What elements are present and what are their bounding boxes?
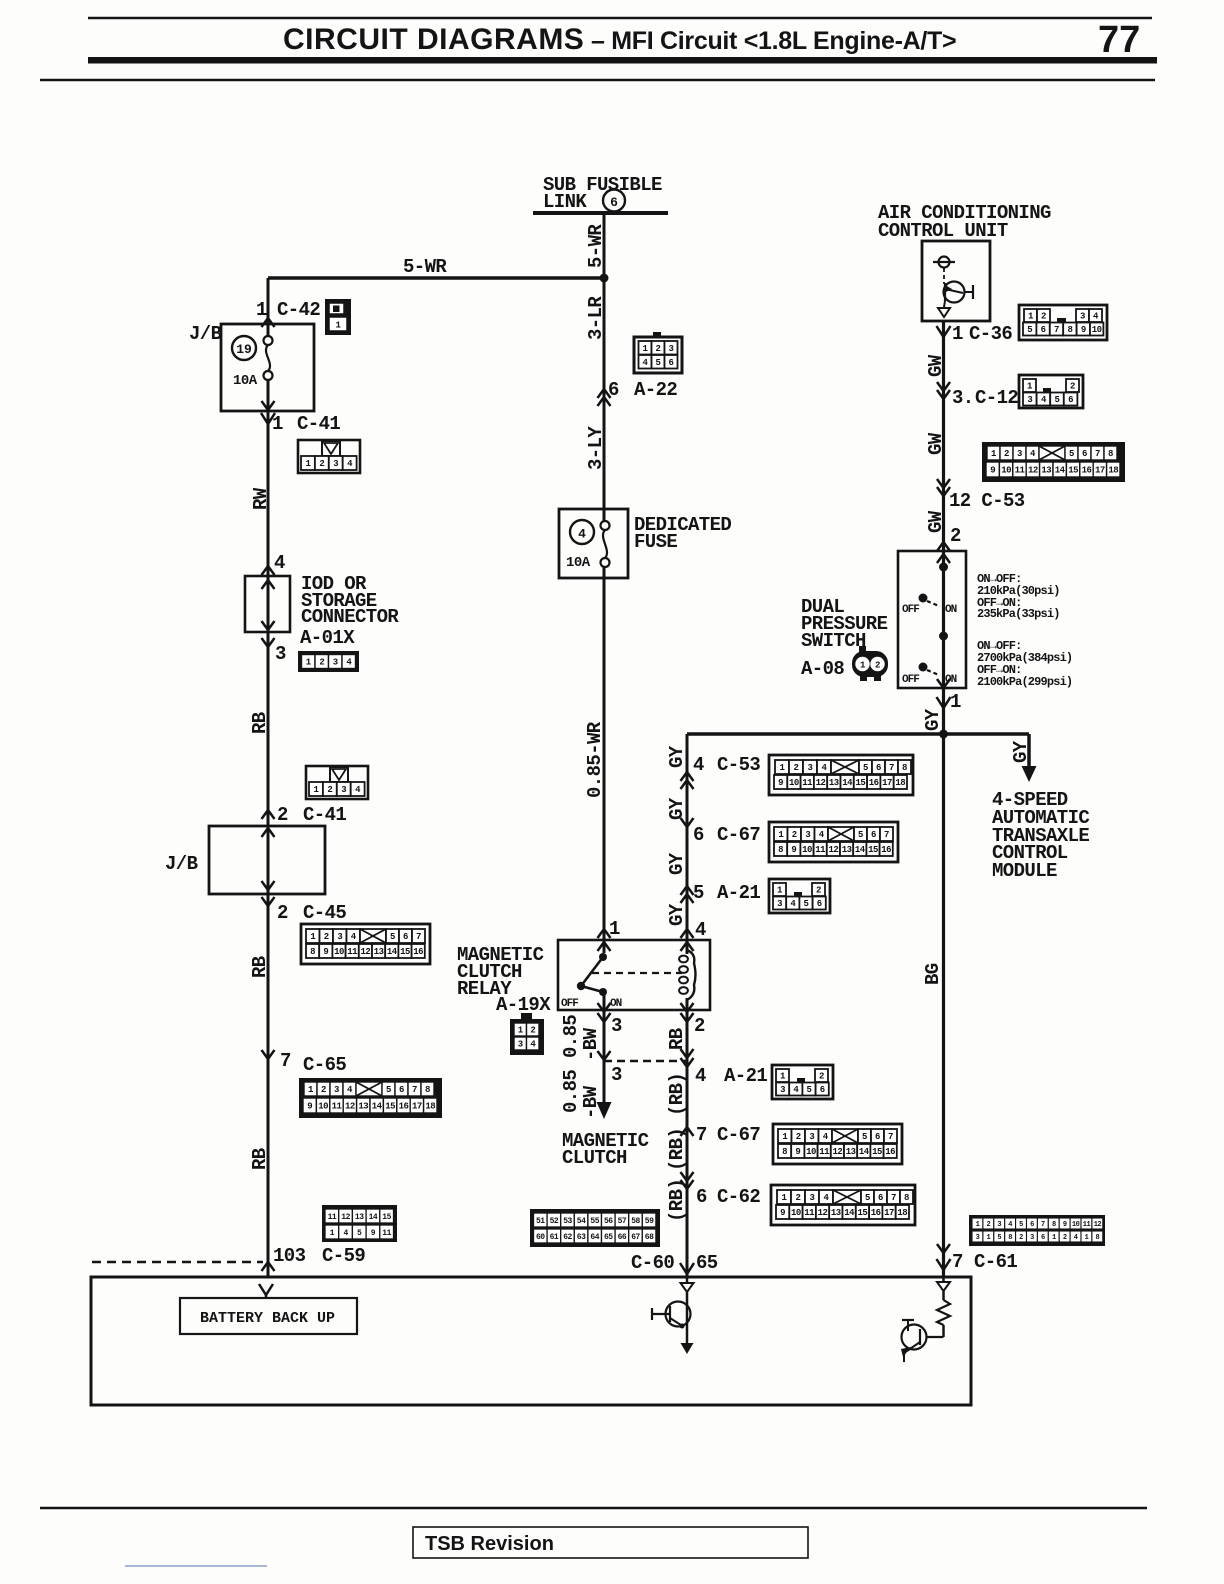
svg-text:C-45: C-45 [303, 902, 346, 924]
svg-text:8: 8 [904, 1193, 909, 1203]
svg-text:3: 3 [997, 1221, 1001, 1229]
svg-text:14: 14 [372, 1102, 383, 1112]
svg-text:14: 14 [1055, 466, 1066, 476]
svg-text:8: 8 [1067, 325, 1072, 335]
svg-text:8: 8 [778, 845, 783, 855]
svg-text:12: 12 [341, 1213, 350, 1222]
svg-text:51: 51 [536, 1217, 545, 1226]
svg-text:CONTROL UNIT: CONTROL UNIT [878, 220, 1008, 242]
svg-text:2: 2 [324, 932, 329, 942]
svg-text:7: 7 [891, 1193, 896, 1203]
svg-text:1: 1 [987, 1234, 991, 1242]
svg-text:4: 4 [1008, 1221, 1012, 1229]
svg-text:GY: GY [922, 708, 944, 731]
svg-text:13: 13 [831, 1208, 841, 1218]
svg-text:7: 7 [888, 1132, 893, 1142]
svg-text:66: 66 [618, 1233, 627, 1242]
svg-text:7: 7 [416, 932, 421, 942]
svg-text:3: 3 [1017, 449, 1022, 459]
svg-text:3-LY: 3-LY [585, 426, 607, 470]
svg-text:5: 5 [807, 1085, 812, 1095]
svg-text:17: 17 [412, 1102, 422, 1112]
svg-text:10A: 10A [566, 555, 591, 571]
svg-text:62: 62 [563, 1233, 572, 1242]
svg-text:9: 9 [780, 1208, 785, 1218]
svg-text:15: 15 [857, 1208, 867, 1218]
svg-text:9: 9 [307, 1102, 312, 1112]
svg-text:13: 13 [846, 1147, 856, 1157]
svg-text:14: 14 [387, 947, 398, 957]
svg-text:OFF: OFF [902, 674, 919, 686]
svg-text:5-WR: 5-WR [403, 256, 447, 278]
svg-text:RB: RB [249, 1148, 271, 1170]
svg-text:11: 11 [382, 1229, 391, 1238]
svg-text:2: 2 [656, 344, 661, 354]
svg-text:53: 53 [563, 1217, 572, 1226]
svg-text:9: 9 [795, 1147, 800, 1157]
svg-text:2: 2 [321, 1085, 326, 1095]
svg-text:6: 6 [1041, 325, 1046, 335]
svg-text:A-21: A-21 [717, 882, 760, 904]
svg-text:ON: ON [610, 998, 622, 1010]
svg-text:16: 16 [413, 947, 423, 957]
svg-text:14: 14 [844, 1208, 855, 1218]
svg-text:CONNECTOR: CONNECTOR [301, 606, 399, 628]
svg-text:11: 11 [328, 1213, 337, 1222]
svg-text:15: 15 [385, 1102, 395, 1112]
svg-text:GW: GW [925, 510, 947, 533]
svg-text:RB: RB [666, 1028, 688, 1050]
svg-text:6: 6 [871, 830, 876, 840]
svg-text:15: 15 [872, 1147, 882, 1157]
svg-text:(RB): (RB) [666, 1073, 688, 1116]
svg-text:17: 17 [1095, 466, 1105, 476]
svg-text:12: 12 [832, 1147, 842, 1157]
svg-text:16: 16 [871, 1208, 881, 1218]
svg-text:C-61: C-61 [974, 1251, 1017, 1273]
svg-text:61: 61 [550, 1233, 559, 1242]
svg-text:5: 5 [1055, 395, 1060, 405]
svg-text:CLUTCH: CLUTCH [562, 1147, 627, 1169]
svg-text:6: 6 [403, 932, 408, 942]
svg-text:CIRCUIT DIAGRAMS – MFI Circuit: CIRCUIT DIAGRAMS – MFI Circuit <1.8L Eng… [283, 23, 956, 56]
svg-text:5: 5 [390, 932, 395, 942]
svg-text:3: 3 [1027, 395, 1032, 405]
svg-text:1: 1 [1052, 1234, 1056, 1242]
svg-text:11: 11 [815, 845, 826, 855]
svg-text:1: 1 [272, 413, 283, 435]
svg-text:GW: GW [925, 432, 947, 455]
svg-text:12: 12 [360, 947, 370, 957]
svg-text:18: 18 [897, 1208, 907, 1218]
svg-text:15: 15 [400, 947, 410, 957]
svg-text:3: 3 [780, 1085, 785, 1095]
svg-text:2: 2 [819, 1072, 824, 1082]
svg-text:55: 55 [590, 1217, 599, 1226]
svg-text:9: 9 [990, 466, 995, 476]
svg-text:6: 6 [610, 195, 618, 210]
svg-text:C-59: C-59 [322, 1245, 365, 1267]
svg-text:5: 5 [862, 1132, 867, 1142]
svg-text:10: 10 [1092, 325, 1102, 335]
svg-text:12: 12 [818, 1208, 828, 1218]
svg-text:2: 2 [277, 804, 288, 826]
svg-text:1: 1 [952, 323, 963, 345]
svg-text:3-LR: 3-LR [585, 296, 607, 340]
svg-text:C-67: C-67 [717, 824, 760, 846]
svg-text:18: 18 [425, 1102, 435, 1112]
svg-text:ON: ON [945, 604, 957, 616]
svg-text:103: 103 [273, 1245, 306, 1267]
svg-text:2: 2 [277, 902, 288, 924]
svg-text:9: 9 [323, 947, 328, 957]
svg-text:3: 3 [777, 899, 782, 909]
svg-text:3: 3 [275, 643, 286, 665]
svg-text:-BW: -BW [580, 1085, 602, 1119]
svg-text:5: 5 [1069, 449, 1074, 459]
svg-text:6: 6 [399, 1085, 404, 1095]
svg-text:5: 5 [804, 899, 809, 909]
svg-text:6: 6 [876, 763, 881, 773]
svg-text:56: 56 [604, 1217, 613, 1226]
svg-text:8: 8 [782, 1147, 787, 1157]
svg-text:C-42: C-42 [277, 299, 320, 321]
svg-text:13: 13 [842, 845, 852, 855]
svg-text:3: 3 [669, 344, 674, 354]
svg-text:58: 58 [631, 1217, 640, 1226]
svg-text:C-36: C-36 [969, 323, 1012, 345]
svg-text:10: 10 [789, 778, 799, 788]
svg-text:2: 2 [694, 1015, 705, 1037]
svg-text:12: 12 [828, 845, 838, 855]
svg-text:7: 7 [889, 763, 894, 773]
svg-text:235kPa(33psi): 235kPa(33psi) [977, 607, 1060, 621]
svg-text:18: 18 [895, 778, 905, 788]
svg-text:5: 5 [386, 1085, 391, 1095]
svg-text:3: 3 [333, 658, 338, 668]
svg-text:2: 2 [327, 785, 332, 795]
svg-text:C-41: C-41 [297, 413, 340, 435]
svg-text:8: 8 [902, 763, 907, 773]
svg-text:GY: GY [666, 797, 688, 820]
svg-text:3: 3 [810, 1193, 815, 1203]
svg-text:5: 5 [858, 830, 863, 840]
svg-text:3: 3 [808, 763, 813, 773]
svg-text:4: 4 [274, 552, 285, 574]
svg-text:GY: GY [666, 903, 688, 926]
svg-text:9: 9 [778, 778, 783, 788]
svg-text:10A: 10A [233, 373, 258, 389]
svg-text:4: 4 [695, 919, 706, 941]
svg-text:2: 2 [794, 763, 799, 773]
svg-text:65: 65 [604, 1233, 613, 1242]
svg-text:1: 1 [950, 691, 961, 713]
svg-text:16: 16 [885, 1147, 895, 1157]
svg-text:2: 2 [875, 661, 880, 671]
svg-text:2100kPa(299psi): 2100kPa(299psi) [977, 675, 1072, 689]
svg-text:8: 8 [310, 947, 315, 957]
svg-text:6: 6 [696, 1186, 707, 1208]
svg-text:MODULE: MODULE [992, 860, 1057, 882]
svg-text:4: 4 [578, 527, 586, 542]
svg-text:5: 5 [357, 1229, 362, 1238]
svg-text:7: 7 [952, 1251, 963, 1273]
svg-text:13: 13 [374, 947, 384, 957]
svg-text:RB: RB [249, 956, 271, 978]
svg-text:10: 10 [806, 1147, 816, 1157]
svg-text:15: 15 [868, 845, 878, 855]
svg-text:6: 6 [1068, 395, 1073, 405]
svg-text:4: 4 [695, 1065, 706, 1087]
svg-text:OFF: OFF [902, 604, 919, 616]
svg-text:65: 65 [696, 1252, 718, 1274]
svg-text:3: 3 [809, 1132, 814, 1142]
svg-text:10: 10 [802, 845, 812, 855]
svg-text:14: 14 [369, 1213, 378, 1222]
svg-text:68: 68 [645, 1233, 654, 1242]
svg-text:17: 17 [884, 1208, 894, 1218]
svg-text:4: 4 [693, 754, 704, 776]
svg-text:1: 1 [256, 299, 267, 321]
svg-text:16: 16 [869, 778, 879, 788]
svg-text:J/B: J/B [189, 323, 222, 345]
svg-text:5: 5 [1027, 325, 1032, 335]
svg-text:C-62: C-62 [717, 1186, 760, 1208]
svg-text:7: 7 [280, 1050, 291, 1072]
svg-text:57: 57 [618, 1217, 627, 1226]
svg-text:1: 1 [609, 918, 620, 940]
svg-text:1: 1 [976, 1221, 980, 1229]
svg-text:6: 6 [1082, 449, 1087, 459]
svg-text:77: 77 [1098, 19, 1140, 61]
svg-text:12: 12 [1028, 466, 1038, 476]
svg-text:15: 15 [855, 778, 865, 788]
svg-text:3: 3 [1030, 1234, 1034, 1242]
svg-text:7: 7 [884, 830, 889, 840]
svg-text:11: 11 [802, 778, 813, 788]
svg-text:2: 2 [1004, 449, 1009, 459]
svg-text:10: 10 [318, 1102, 328, 1112]
svg-text:A-01X: A-01X [300, 627, 355, 649]
svg-text:8: 8 [425, 1085, 430, 1095]
svg-text:7: 7 [1054, 325, 1059, 335]
svg-text:8: 8 [1108, 449, 1113, 459]
svg-text:12 C-53: 12 C-53 [949, 490, 1025, 512]
svg-text:6: 6 [875, 1132, 880, 1142]
svg-text:10: 10 [1072, 1221, 1080, 1229]
svg-text:17: 17 [882, 778, 892, 788]
svg-text:12: 12 [1094, 1221, 1102, 1229]
svg-text:GY: GY [666, 852, 688, 875]
svg-text:GY: GY [1010, 740, 1032, 763]
svg-text:5: 5 [693, 882, 704, 904]
svg-text:(RB): (RB) [666, 1128, 688, 1171]
svg-text:A-22: A-22 [634, 379, 677, 401]
svg-text:0.85-WR: 0.85-WR [584, 721, 606, 798]
svg-text:14: 14 [842, 778, 853, 788]
svg-text:1: 1 [330, 1229, 335, 1238]
svg-text:A-21: A-21 [724, 1065, 767, 1087]
svg-text:C-41: C-41 [303, 804, 346, 826]
svg-text:5: 5 [656, 358, 661, 368]
svg-text:64: 64 [590, 1233, 599, 1242]
svg-text:11: 11 [1015, 466, 1026, 476]
svg-text:GW: GW [925, 354, 947, 377]
svg-text:11: 11 [1083, 1221, 1091, 1229]
svg-text:3: 3 [976, 1234, 980, 1242]
svg-text:7: 7 [412, 1085, 417, 1095]
svg-text:11: 11 [332, 1102, 343, 1112]
svg-text:2: 2 [1041, 312, 1046, 322]
svg-text:14: 14 [855, 845, 866, 855]
svg-text:BATTERY BACK UP: BATTERY BACK UP [200, 1310, 335, 1327]
svg-text:13: 13 [1041, 466, 1051, 476]
svg-text:18: 18 [1108, 466, 1118, 476]
svg-text:4: 4 [1074, 1234, 1078, 1242]
svg-text:2: 2 [796, 1132, 801, 1142]
svg-text:9: 9 [1081, 325, 1086, 335]
svg-text:59: 59 [645, 1217, 654, 1226]
svg-text:3: 3 [333, 459, 338, 469]
svg-text:TSB Revision: TSB Revision [425, 1533, 554, 1555]
svg-text:2: 2 [987, 1221, 991, 1229]
svg-text:2: 2 [950, 525, 961, 547]
svg-text:3: 3 [611, 1015, 622, 1037]
svg-text:6: 6 [1041, 1234, 1045, 1242]
svg-text:GY: GY [666, 745, 688, 768]
svg-text:3: 3 [805, 830, 810, 840]
svg-text:3: 3 [1080, 312, 1085, 322]
svg-text:3: 3 [611, 1064, 622, 1086]
svg-text:(RB): (RB) [666, 1179, 688, 1222]
svg-text:5: 5 [1019, 1221, 1023, 1229]
svg-text:16: 16 [399, 1102, 409, 1112]
svg-text:C-65: C-65 [303, 1054, 346, 1076]
svg-text:16: 16 [1082, 466, 1092, 476]
svg-text:RB: RB [249, 712, 271, 734]
svg-text:3: 3 [337, 932, 342, 942]
svg-text:5-WR: 5-WR [585, 224, 607, 268]
svg-text:15: 15 [382, 1213, 391, 1222]
svg-text:6: 6 [608, 379, 619, 401]
svg-text:RW: RW [250, 487, 272, 510]
svg-text:6: 6 [820, 1085, 825, 1095]
svg-text:10: 10 [791, 1208, 801, 1218]
svg-text:10: 10 [334, 947, 344, 957]
svg-text:16: 16 [881, 845, 891, 855]
svg-text:2: 2 [530, 1026, 535, 1036]
svg-text:5: 5 [997, 1234, 1001, 1242]
svg-text:J/B: J/B [165, 853, 198, 875]
svg-text:2: 2 [816, 886, 821, 896]
svg-text:5: 5 [863, 763, 868, 773]
svg-text:67: 67 [631, 1233, 640, 1242]
svg-text:63: 63 [577, 1233, 586, 1242]
svg-text:13: 13 [355, 1213, 364, 1222]
svg-text:2: 2 [1070, 382, 1075, 392]
svg-text:3: 3 [518, 1040, 523, 1050]
svg-text:6: 6 [817, 899, 822, 909]
svg-text:11: 11 [804, 1208, 815, 1218]
svg-text:12: 12 [345, 1102, 355, 1112]
svg-text:14: 14 [859, 1147, 870, 1157]
svg-text:2: 2 [319, 459, 324, 469]
svg-text:60: 60 [536, 1233, 545, 1242]
svg-text:8: 8 [1052, 1221, 1056, 1229]
svg-text:2: 2 [319, 658, 324, 668]
svg-text:15: 15 [1068, 466, 1078, 476]
svg-text:3: 3 [334, 1085, 339, 1095]
svg-text:4: 4 [343, 1229, 348, 1238]
svg-text:8: 8 [1096, 1234, 1100, 1242]
svg-text:13: 13 [829, 778, 839, 788]
svg-text:3.: 3. [952, 387, 974, 409]
svg-text:10: 10 [1001, 466, 1011, 476]
svg-text:FUSE: FUSE [634, 531, 677, 553]
svg-text:2: 2 [1063, 1234, 1067, 1242]
svg-text:13: 13 [358, 1102, 368, 1112]
svg-text:54: 54 [577, 1217, 586, 1226]
svg-text:7: 7 [696, 1124, 707, 1146]
svg-text:2: 2 [1019, 1234, 1023, 1242]
svg-text:8: 8 [1008, 1234, 1012, 1242]
svg-text:6: 6 [878, 1193, 883, 1203]
svg-text:9: 9 [791, 845, 796, 855]
svg-text:3: 3 [341, 785, 346, 795]
svg-text:11: 11 [347, 947, 358, 957]
svg-text:2: 2 [792, 830, 797, 840]
svg-text:1: 1 [1085, 1234, 1089, 1242]
svg-text:-BW: -BW [580, 1027, 602, 1061]
svg-text:A-08: A-08 [801, 658, 844, 680]
svg-text:A-19X: A-19X [496, 994, 551, 1016]
svg-text:7: 7 [1041, 1221, 1045, 1229]
svg-text:19: 19 [236, 342, 252, 357]
svg-text:6: 6 [693, 824, 704, 846]
svg-text:C-67: C-67 [717, 1124, 760, 1146]
svg-text:C-12: C-12 [975, 387, 1018, 409]
svg-text:6: 6 [1030, 1221, 1034, 1229]
svg-text:6: 6 [669, 358, 674, 368]
svg-text:52: 52 [550, 1217, 559, 1226]
svg-text:LINK: LINK [543, 191, 587, 213]
svg-text:9: 9 [1063, 1221, 1067, 1229]
svg-text:0.85: 0.85 [560, 1070, 582, 1113]
svg-text:OFF: OFF [561, 998, 578, 1010]
svg-text:BG: BG [922, 963, 944, 985]
svg-text:5: 5 [865, 1193, 870, 1203]
svg-text:11: 11 [819, 1147, 830, 1157]
svg-text:0.85: 0.85 [560, 1015, 582, 1058]
svg-text:C-60: C-60 [631, 1252, 674, 1274]
svg-text:C-53: C-53 [717, 754, 760, 776]
svg-text:9: 9 [371, 1229, 376, 1238]
svg-text:7: 7 [1095, 449, 1100, 459]
svg-text:12: 12 [816, 778, 826, 788]
svg-text:2: 2 [796, 1193, 801, 1203]
svg-text:SWITCH: SWITCH [801, 630, 866, 652]
